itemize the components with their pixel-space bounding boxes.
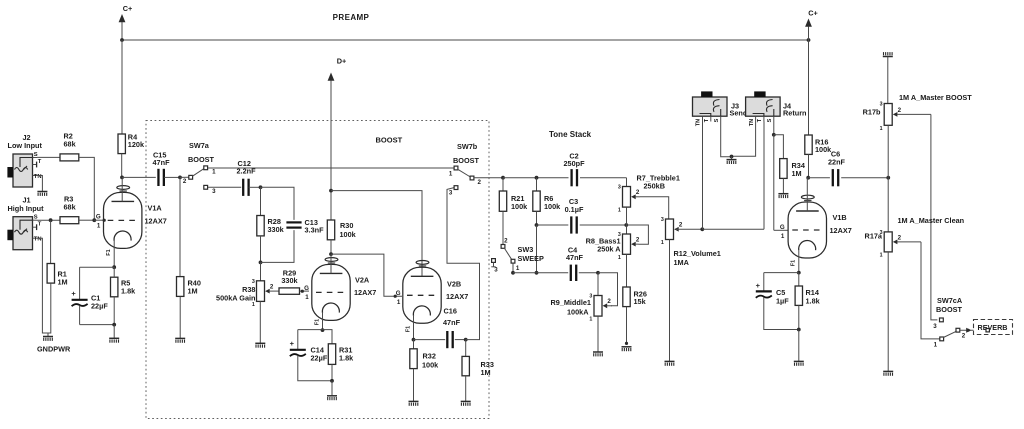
resistor R4 [118, 134, 125, 154]
svg-text:GNDPWR: GNDPWR [37, 345, 71, 354]
svg-text:S: S [714, 118, 720, 122]
svg-text:TN: TN [34, 237, 42, 243]
contact SW7cA 2 [956, 328, 960, 332]
node V1A plate [120, 176, 124, 180]
wire V2A cathode lead [322, 313, 324, 330]
wire R5 top [113, 267, 115, 277]
wire cathode to R14 [798, 273, 800, 286]
svg-text:250kB: 250kB [644, 182, 666, 191]
resistor R14 [795, 286, 802, 305]
wire tone rail [503, 177, 569, 179]
wire C16 right [455, 339, 466, 341]
svg-text:1: 1 [880, 253, 883, 259]
triode V2B [403, 261, 441, 324]
node C15/SW7a/R40 [178, 176, 182, 180]
svg-text:F1: F1 [315, 319, 321, 325]
wire V1B cathode lead [798, 251, 800, 273]
contact SW7a 3 [204, 185, 208, 189]
ground R32 [409, 401, 419, 405]
svg-text:250pF: 250pF [563, 159, 585, 168]
svg-text:330k: 330k [268, 225, 285, 234]
svg-text:250k A: 250k A [597, 245, 621, 254]
node R9 top [596, 271, 600, 275]
svg-text:BOOST: BOOST [188, 155, 214, 164]
wire to ground [331, 381, 333, 396]
svg-text:3: 3 [661, 217, 664, 223]
wire J4 T down [763, 122, 765, 230]
svg-text:3: 3 [212, 188, 216, 195]
svg-text:1MA: 1MA [674, 258, 690, 267]
svg-text:2: 2 [607, 298, 611, 305]
ground R38 [255, 343, 265, 347]
wire R21 to SW3 [502, 211, 504, 244]
wire C12 to node [249, 186, 261, 188]
potentiometer R7 Treble [618, 185, 640, 214]
jack J4 Return [746, 91, 781, 121]
triode V1A [104, 186, 142, 249]
wire grid node to V1A grid pin [94, 219, 104, 221]
node R7/R8 [624, 223, 628, 227]
ground R14 [794, 361, 804, 365]
svg-text:F1: F1 [406, 326, 412, 332]
svg-text:12AX7: 12AX7 [446, 292, 468, 301]
capacitor C16 [447, 331, 452, 348]
svg-text:3: 3 [933, 323, 937, 330]
svg-text:12AX7: 12AX7 [830, 226, 852, 235]
wire C+ to R4 [121, 40, 123, 134]
wire R33 to ground [465, 376, 467, 401]
triode V1B [788, 195, 826, 258]
contact SW7b 2 [470, 176, 474, 180]
node R21 top [501, 176, 505, 180]
svg-text:SW7cA: SW7cA [937, 296, 963, 305]
ground R34 [778, 194, 788, 198]
svg-text:+: + [71, 289, 76, 298]
svg-text:F1: F1 [106, 249, 112, 255]
ground R33 [461, 401, 471, 405]
wire C14 bottom [298, 356, 332, 381]
wire R8 bottom to R26 [626, 254, 628, 287]
svg-text:C+: C+ [808, 9, 818, 18]
svg-text:120k: 120k [128, 140, 145, 149]
svg-text:15k: 15k [634, 297, 647, 306]
node R12 wiper/J3 [700, 227, 704, 231]
svg-text:R32: R32 [423, 352, 436, 361]
svg-text:V2A: V2A [355, 276, 370, 285]
wire C6 to master node [841, 177, 888, 179]
svg-text:R17b: R17b [863, 108, 881, 117]
wire V1B plate lead [806, 178, 808, 211]
node C14/R31 ground [330, 379, 334, 383]
capacitor C2 [572, 169, 577, 186]
wire SW7a-1 to SW7b-1 [208, 167, 454, 169]
wire R7 top lead [626, 178, 628, 187]
svg-text:1M: 1M [481, 368, 491, 377]
wire cathode to C16 [414, 339, 446, 341]
svg-text:2: 2 [636, 237, 640, 244]
triode V2A [312, 258, 350, 321]
wire R17b wiper down to SW7cA-3 [931, 114, 938, 320]
wire SW3 lever [504, 248, 512, 260]
svg-text:100k: 100k [340, 230, 357, 239]
contact SW3 1 [511, 259, 515, 263]
ground J2 [37, 192, 47, 196]
svg-text:1: 1 [516, 265, 520, 272]
wire D+ branch to V2B plate [331, 191, 422, 277]
wire R7 wiper to R12 [640, 197, 669, 219]
ground R26 [622, 347, 632, 351]
capacitor C12 [243, 179, 248, 196]
ground R17a [883, 371, 893, 375]
node V2A cathode [321, 328, 325, 332]
ground R12 [665, 361, 675, 365]
wire R26 to ground [626, 307, 628, 344]
svg-text:T: T [38, 159, 42, 165]
node R6/C3 wire [535, 223, 539, 227]
node V2A plate [329, 252, 333, 256]
resistor R3 [60, 217, 79, 224]
contact SW3 3 [492, 259, 496, 263]
wire V2A plate lead [330, 254, 332, 273]
svg-text:1M: 1M [792, 169, 802, 178]
node D+ branch to V2B plate [329, 189, 333, 193]
node C12/R28/C13 [259, 185, 263, 189]
pin REVERB [986, 329, 989, 332]
wire R30 to V2A plate [330, 240, 332, 254]
resistor R1 [47, 264, 54, 284]
wire J4 TN to ground [732, 122, 756, 157]
potentiometer R17a [880, 230, 921, 258]
wire C5 bottom [764, 297, 799, 329]
svg-text:C16: C16 [444, 307, 457, 316]
svg-text:1: 1 [397, 299, 401, 306]
node J4 S/R34 [772, 133, 776, 137]
contact SW7cA 1 [940, 337, 944, 341]
wire node to R33 [465, 340, 467, 357]
resistor R40 [177, 277, 184, 297]
potentiometer R17b [880, 102, 931, 132]
wire cathode to C14 [297, 330, 299, 349]
svg-text:TN: TN [696, 119, 702, 126]
contact SW7b 3 [454, 186, 458, 190]
wire V2A plate node to V2B grid [331, 254, 402, 296]
svg-text:2: 2 [504, 237, 508, 244]
resistor R5 [111, 277, 118, 297]
svg-text:0.1µF: 0.1µF [565, 205, 584, 214]
wire master node to R17a [887, 178, 889, 232]
ground V2A cathode [327, 396, 337, 400]
wire J1 S to R3 [37, 219, 60, 221]
node C5/R14 [797, 328, 801, 332]
wire J3 TN down to volume node [702, 122, 704, 230]
svg-text:V1A: V1A [148, 204, 163, 213]
resistor R28 [257, 216, 264, 236]
arrow into REVERB [966, 328, 971, 333]
wire R9 bottom to ground [597, 316, 599, 352]
wire R6 node down to SW3 wire [536, 225, 538, 273]
wire J4 S down [773, 122, 775, 135]
svg-text:12AX7: 12AX7 [145, 217, 167, 226]
resistor R34 [780, 159, 787, 179]
svg-text:2: 2 [183, 178, 187, 185]
capacitor C15 [158, 169, 163, 186]
wire cathode to C1 [80, 266, 115, 268]
svg-text:1: 1 [449, 170, 453, 177]
wire to ground [798, 330, 800, 362]
resistor R33 [462, 356, 469, 375]
wire V2B cathode lead [413, 316, 415, 340]
wire node to R28 [260, 187, 262, 215]
wire V1A plate to C15 [122, 176, 156, 178]
wire C1 bottom lead [79, 306, 81, 325]
svg-text:47nF: 47nF [566, 253, 584, 262]
svg-text:G: G [304, 285, 309, 292]
svg-text:1µF: 1µF [776, 297, 789, 306]
wire R9 top lead [597, 273, 599, 296]
wire C+ top rail [122, 39, 809, 41]
svg-text:1M A_Master Clean: 1M A_Master Clean [898, 216, 965, 225]
contact SW7cA 3 [940, 318, 944, 322]
wire D+ to R30 [330, 81, 332, 221]
svg-text:100k: 100k [511, 202, 528, 211]
potentiometer R12 Volume [661, 217, 683, 246]
svg-text:3: 3 [449, 189, 453, 196]
resistor R31 [328, 344, 335, 365]
svg-text:500kA Gain: 500kA Gain [216, 294, 255, 303]
wire R4 to V1A plate node [121, 154, 123, 178]
wire to R34 [774, 135, 784, 159]
node V1B plate [806, 176, 810, 180]
svg-text:Send: Send [730, 109, 748, 118]
svg-text:T: T [38, 222, 42, 228]
svg-text:2: 2 [270, 284, 274, 291]
wire V1A plate lead [121, 177, 123, 201]
wire C1 top lead [79, 267, 81, 299]
svg-text:TN: TN [34, 174, 42, 180]
capacitor C13 [286, 222, 301, 227]
wire cathode to C5 [763, 273, 765, 291]
svg-text:V2B: V2B [447, 280, 461, 289]
node C+ rail right junction [807, 38, 811, 42]
wire J3 S to ground [721, 122, 732, 157]
wire C3 to R7/R8 node [580, 224, 627, 226]
no-connect SW3 3 [493, 262, 495, 266]
svg-text:3.3nF: 3.3nF [305, 226, 325, 235]
ground top (R17b) [883, 52, 893, 56]
node C16/R33 [464, 338, 468, 342]
ground R9 [593, 352, 603, 356]
wire V1B grid lead [774, 229, 789, 231]
wire plate node to C6 [808, 177, 830, 179]
wire R9 wiper loop [598, 273, 618, 306]
jack J2 Low Input [7, 152, 41, 187]
svg-text:1: 1 [781, 233, 785, 240]
svg-text:2: 2 [898, 107, 902, 114]
wire R1 to GNDPWR [48, 283, 51, 333]
wire SW7a lever [192, 169, 204, 177]
wire R32 to ground [413, 369, 415, 401]
svg-text:BOOST: BOOST [453, 156, 479, 165]
wire C15 to SW7a [164, 176, 180, 178]
svg-text:F1: F1 [791, 260, 797, 266]
wire J2 TN to ground [37, 176, 42, 192]
svg-text:BOOST: BOOST [936, 305, 962, 314]
potentiometer R8 Bass [618, 232, 640, 261]
wire R40 to ground [179, 297, 181, 338]
potentiometer R38 Gain [252, 279, 279, 308]
resistor R2 [60, 154, 79, 161]
wire SW7cA-2 to REVERB [960, 329, 986, 331]
resistor R21 [499, 191, 506, 211]
svg-text:2: 2 [898, 234, 902, 241]
wire node to C13 [261, 187, 295, 220]
wire node to R38 [260, 262, 262, 280]
wire SW7b-2 to tone stack [474, 177, 503, 179]
wire J2 S to R2 [37, 156, 60, 158]
svg-text:100kA: 100kA [567, 308, 589, 317]
svg-text:1: 1 [880, 126, 883, 132]
wire R40 top [179, 177, 181, 276]
wire ground to R17b [887, 57, 889, 104]
svg-text:High Input: High Input [8, 204, 45, 213]
svg-text:SW3: SW3 [518, 245, 534, 254]
ground V1A cathode [109, 338, 119, 342]
capacitor C6 [833, 169, 838, 186]
wire R2 to grid node [79, 157, 95, 220]
BOOST dotted box [146, 121, 489, 419]
svg-text:Return: Return [783, 109, 807, 118]
wire J1 TN to GNDPWR [37, 238, 48, 333]
svg-text:1: 1 [618, 208, 621, 214]
switch SW7a [180, 176, 189, 178]
node SW3 wire/R6 branch [535, 271, 539, 275]
wire SW7b lever [458, 169, 471, 177]
ground GNDPWR [43, 337, 53, 341]
svg-text:1: 1 [305, 294, 309, 301]
node FX ground [730, 155, 734, 159]
svg-text:1: 1 [97, 223, 101, 230]
ground R40 [175, 338, 185, 342]
svg-text:68k: 68k [64, 140, 77, 149]
resistor R30 [327, 220, 334, 240]
svg-text:1: 1 [252, 302, 255, 308]
capacitor C1 [71, 289, 87, 306]
wire SW7cA lever [943, 331, 956, 337]
wire R14 bottom [798, 305, 800, 329]
svg-text:V1B: V1B [833, 213, 847, 222]
wire to ground [113, 325, 115, 338]
node SW3 out [511, 271, 515, 275]
svg-text:22µF: 22µF [311, 354, 328, 363]
svg-text:1: 1 [661, 240, 664, 246]
svg-text:SW7b: SW7b [457, 142, 478, 151]
jack J1 High Input [7, 215, 41, 250]
svg-text:+: + [290, 339, 295, 348]
resistor R29 [279, 288, 300, 294]
node V1B cathode [797, 271, 801, 275]
svg-text:1: 1 [589, 317, 592, 323]
svg-text:TN: TN [749, 119, 755, 126]
node C+ rail left junction [120, 38, 124, 42]
capacitor C5 [756, 281, 772, 298]
svg-text:3: 3 [618, 185, 621, 191]
wire R6 top lead [536, 178, 538, 191]
wire R34 to ground [782, 178, 784, 193]
node V2B cathode [412, 338, 416, 342]
svg-text:100k: 100k [544, 202, 561, 211]
svg-text:1: 1 [212, 168, 216, 175]
svg-text:1: 1 [934, 341, 938, 348]
svg-text:C+: C+ [123, 4, 133, 13]
node R6 top [535, 176, 539, 180]
wire R5 bottom [113, 297, 115, 325]
svg-text:R17a: R17a [865, 232, 883, 241]
svg-text:+: + [756, 281, 761, 290]
wire R1 top [50, 220, 52, 263]
wire R7 bottom to R8 [626, 207, 628, 234]
svg-text:2: 2 [477, 179, 481, 186]
wire C4 to R9 node [579, 272, 598, 274]
wire C1 to R5 bottom [80, 324, 115, 326]
svg-text:D+: D+ [337, 57, 347, 66]
svg-text:2: 2 [679, 222, 683, 229]
wire R17b bottom to master node [887, 125, 889, 177]
wire R12 bottom to ground [669, 240, 671, 362]
svg-text:SW7a: SW7a [189, 141, 210, 150]
jack J3 Send [693, 91, 728, 121]
wire C+ to R16 [808, 40, 810, 135]
svg-text:68k: 68k [64, 203, 77, 212]
svg-text:2: 2 [636, 189, 640, 196]
svg-text:S: S [767, 118, 773, 122]
wire R29 to V2A grid [300, 290, 310, 292]
svg-text:SWEEP: SWEEP [518, 254, 544, 263]
svg-text:1: 1 [618, 255, 621, 261]
wire R31 bottom [331, 364, 333, 380]
svg-text:1.8k: 1.8k [339, 354, 354, 363]
wire R8 wiper loop [626, 225, 648, 244]
svg-text:22nF: 22nF [828, 158, 846, 167]
wire R16 to plate node [808, 155, 810, 178]
wire volume node to J4 T [702, 228, 764, 230]
svg-text:330k: 330k [281, 276, 298, 285]
wire R38 bottom to ground [259, 301, 261, 343]
resistor R16 [805, 135, 812, 154]
svg-text:1M A_Master BOOST: 1M A_Master BOOST [899, 93, 972, 102]
wire C16 node to SW7b-3 [447, 188, 480, 340]
wire sweep rail [513, 272, 568, 274]
capacitor C4 [571, 265, 576, 281]
svg-text:47nF: 47nF [443, 318, 461, 327]
svg-text:Tone Stack: Tone Stack [549, 130, 592, 139]
svg-text:REVERB: REVERB [978, 323, 1008, 332]
ground FX jacks [727, 160, 737, 164]
svg-text:Low Input: Low Input [8, 141, 43, 150]
node V1A grid [92, 218, 96, 222]
svg-text:1.8k: 1.8k [121, 287, 136, 296]
contact SW7a 1 [204, 166, 208, 170]
resistor R6 [533, 191, 540, 211]
capacitor C14 [290, 339, 306, 356]
svg-text:G: G [396, 290, 401, 297]
svg-text:R9_Middle1: R9_Middle1 [550, 298, 591, 307]
node J1/R1 [49, 218, 53, 222]
node V1A cathode [112, 265, 116, 269]
wire R21 top lead [502, 178, 504, 191]
svg-text:1.8k: 1.8k [806, 297, 821, 306]
wire J4 S to V1B grid [773, 135, 775, 231]
resistor R32 [410, 349, 417, 369]
